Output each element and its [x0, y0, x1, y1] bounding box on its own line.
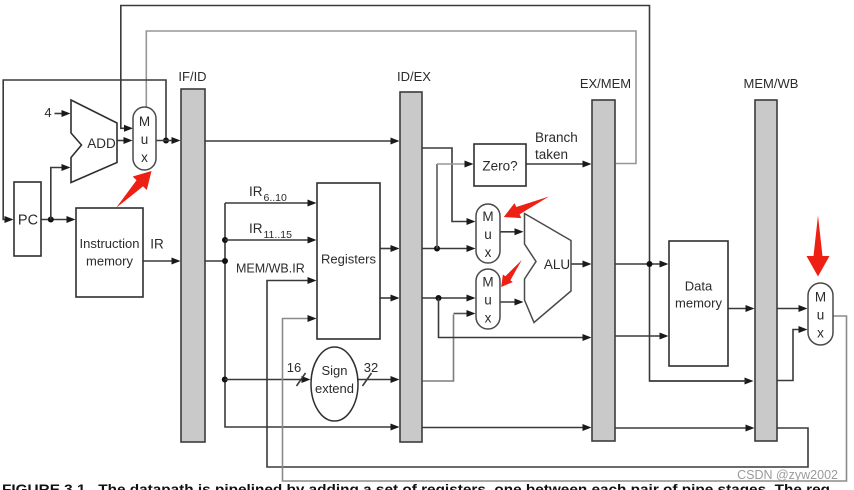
wire MEM/WB.IR feedback to Registers — [267, 281, 808, 468]
wire bypass MEM/WB to mux4 lower input — [777, 330, 801, 381]
wire IR11..15 into Registers — [225, 239, 310, 241]
node IR11..15 junction — [222, 237, 228, 243]
svg-text:EX/MEM: EX/MEM — [580, 76, 631, 91]
node B junction — [436, 295, 442, 301]
mux M3 (ALU input 2) — [476, 269, 500, 329]
wire IR6..10 into Registers — [225, 202, 310, 204]
svg-text:u: u — [484, 227, 492, 242]
wire store data EX/MEM to data memory — [615, 335, 662, 337]
svg-text:M: M — [482, 275, 493, 290]
svg-text:M: M — [815, 290, 826, 305]
pipeline register ID/EX — [400, 92, 422, 442]
wire B from ID/EX to mux3 top input — [422, 297, 469, 299]
wire ADD output to mux1 — [117, 140, 126, 142]
svg-text:u: u — [817, 308, 825, 323]
svg-text:taken: taken — [535, 147, 568, 162]
red arrow pointing at mux M2 — [504, 197, 549, 219]
pipeline register MEM/WB — [755, 100, 777, 441]
svg-text:CSDN @zyw2002: CSDN @zyw2002 — [737, 468, 838, 482]
wire branch-target loop (EX/MEM ALU result to PC mux, top) — [121, 6, 746, 382]
wire ALU result EX/MEM to data memory address — [615, 263, 662, 265]
red arrow pointing at mux M4 — [807, 216, 830, 277]
wire immediate ID/EX to mux3 lower input (gray) — [422, 315, 454, 382]
wire Zero? output branch taken to EX/MEM — [526, 163, 585, 165]
node immediate junction — [222, 377, 228, 383]
wire IR pipe EX/MEM to MEM/WB — [615, 427, 748, 429]
svg-text:memory: memory — [86, 254, 133, 269]
adder ADD — [71, 100, 117, 183]
node IR junction — [222, 258, 228, 264]
wire PC to instruction memory — [41, 219, 69, 221]
pipeline register IF/ID — [181, 89, 205, 442]
svg-text:MEM/WB: MEM/WB — [744, 76, 799, 91]
wire A up to Zero? — [436, 164, 438, 249]
register file Registers — [317, 183, 380, 339]
pipeline register EX/MEM — [592, 100, 615, 441]
svg-text:Sign: Sign — [321, 363, 347, 378]
svg-text:Branch: Branch — [535, 130, 578, 145]
svg-text:memory: memory — [675, 296, 722, 311]
svg-text:IF/ID: IF/ID — [178, 69, 206, 84]
sign extend unit — [311, 347, 358, 421]
svg-text:Registers: Registers — [321, 252, 376, 267]
svg-text:4: 4 — [44, 105, 51, 120]
wire constant 4 into ADD — [55, 113, 65, 115]
svg-text:x: x — [485, 245, 492, 260]
wire PC to ADD lower input — [51, 168, 64, 220]
wire mux3 output to ALU — [500, 301, 517, 303]
comparator Zero? — [474, 144, 526, 186]
svg-text:Data: Data — [685, 279, 713, 294]
wire B down and to EX/MEM (store data) — [439, 298, 586, 338]
svg-text:Instruction: Instruction — [80, 236, 140, 251]
svg-text:x: x — [141, 150, 148, 165]
wire NPC ID/EX to mux2 top input — [422, 148, 469, 222]
node PC output junction — [48, 217, 54, 223]
svg-text:ID/EX: ID/EX — [397, 69, 431, 84]
wire IR instruction memory to IF/ID — [143, 260, 174, 262]
svg-text:M: M — [139, 114, 150, 129]
node mux1 output junction — [163, 138, 169, 144]
red arrow pointing at mux M3 — [501, 260, 522, 287]
svg-text:u: u — [484, 293, 492, 308]
wire PC feedback (mux output up-over to PC input) — [3, 80, 166, 220]
wire ALU output to EX/MEM — [571, 263, 585, 265]
red arrow pointing at mux M1 — [116, 171, 152, 208]
svg-text:ADD: ADD — [87, 136, 116, 151]
data memory — [669, 241, 728, 366]
wire register A output to ID/EX — [380, 248, 393, 250]
wire ALU-result bypass into MEM/WB — [650, 380, 747, 382]
node ALU result junction — [647, 261, 653, 267]
svg-text:extend: extend — [315, 381, 354, 396]
wire IR vertical bus and low path into ID/EX — [225, 203, 393, 427]
svg-text:MEM/WB.IR: MEM/WB.IR — [236, 262, 305, 276]
mux M4 (write-back select) — [808, 283, 833, 345]
svg-text:x: x — [485, 311, 492, 326]
mux M1 (PC select) — [133, 107, 156, 170]
wire write-back data mux4 to Registers (gray) — [283, 316, 847, 481]
node A junction — [434, 246, 440, 252]
mux M2 (ALU input 1) — [476, 204, 500, 263]
wire NPC IF/ID to ID/EX — [205, 140, 393, 142]
svg-text:IR: IR — [249, 184, 263, 199]
register PC — [14, 182, 41, 256]
svg-text:M: M — [482, 209, 493, 224]
wire register B output to ID/EX — [380, 297, 393, 299]
wire data memory output to MEM/WB — [728, 308, 748, 310]
wire IR from IF/ID to distribution node — [205, 260, 225, 262]
instruction memory — [76, 208, 143, 297]
svg-text:u: u — [141, 132, 149, 147]
svg-text:ALU: ALU — [544, 257, 570, 272]
wire IR pipe ID/EX to EX/MEM — [422, 427, 585, 429]
ALU — [525, 214, 572, 323]
svg-text:11..15: 11..15 — [264, 229, 293, 241]
wire A from ID/EX to mux2 lower input — [422, 248, 469, 250]
svg-text:FIGURE 3.1 The datapath is p: FIGURE 3.1 The datapath is pipelined by … — [2, 481, 830, 490]
wire immediate into sign extend — [225, 379, 304, 381]
wire branch-taken loop (gray, EX/MEM to PC mux select) — [146, 31, 636, 164]
svg-text:IR: IR — [249, 221, 263, 236]
svg-text:Zero?: Zero? — [482, 159, 517, 174]
wire mux1 output to IF/ID — [156, 140, 174, 142]
wire MEM/WB to mux4 top input — [777, 308, 801, 310]
svg-text:6..10: 6..10 — [264, 192, 288, 204]
svg-text:IR: IR — [150, 237, 164, 252]
svg-text:x: x — [817, 326, 824, 341]
svg-text:PC: PC — [18, 213, 38, 229]
wire mux2 output to ALU — [500, 231, 517, 233]
svg-text:16: 16 — [287, 360, 301, 375]
wire sign extend output to ID/EX — [358, 379, 393, 381]
